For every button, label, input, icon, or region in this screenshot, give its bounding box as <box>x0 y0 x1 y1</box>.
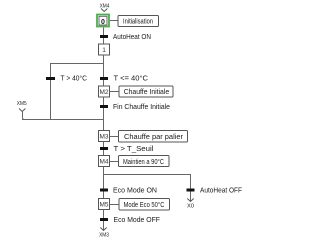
action box Chauffe par palier <box>119 131 188 143</box>
step M2 <box>99 86 110 97</box>
svg-text:0: 0 <box>101 19 105 26</box>
wire transition to step M2 <box>103 80 105 86</box>
wire transition to step 1 <box>103 38 105 44</box>
action box Chauffe Initiale <box>119 86 173 97</box>
svg-text:T > 40°C: T > 40°C <box>61 75 88 83</box>
transition Eco Mode OFF <box>100 218 108 221</box>
svg-text:Maintien a 90°C: Maintien a 90°C <box>123 158 164 166</box>
transition T > 40°C <box>46 77 55 80</box>
transition Eco Mode ON <box>100 189 108 192</box>
svg-text:Initialisation: Initialisation <box>123 19 153 26</box>
svg-text:M5: M5 <box>99 202 108 209</box>
svg-text:AutoHeat ON: AutoHeat ON <box>113 34 151 41</box>
wire left branch down <box>50 63 52 120</box>
wire M5 down <box>103 210 105 219</box>
step 1 <box>99 44 110 55</box>
svg-text:Chauffe Initiale: Chauffe Initiale <box>124 89 170 96</box>
wire right branch down <box>190 175 192 189</box>
wire M2 down <box>103 97 105 131</box>
transition T > T_Seuil <box>100 147 108 150</box>
transition AutoHeat ON <box>100 35 108 38</box>
node XM5 entry arrowhead <box>19 109 25 112</box>
action box Initialisation <box>118 16 159 27</box>
wire AutoHeat OFF to X0 <box>190 192 192 202</box>
svg-text:Mode Eco 50°C: Mode Eco 50°C <box>124 201 165 209</box>
OR divergence line <box>50 63 104 65</box>
step 0 (initial step, active, green double box) <box>97 15 109 27</box>
wire Eco Mode ON to step M5 <box>103 192 105 199</box>
wire step 1 down <box>103 55 105 77</box>
wire M3 down <box>103 142 105 156</box>
transition Fin Chauffe Initiale <box>100 105 108 108</box>
wire M4 down <box>103 167 105 189</box>
wire XM5 entry <box>23 112 25 120</box>
svg-text:M3: M3 <box>99 134 108 141</box>
step M5 <box>99 199 110 210</box>
node XM4 entry arrowhead <box>101 9 107 12</box>
wire Eco Mode OFF to XM3 <box>103 221 105 230</box>
svg-text:Fin Chauffe Initiale: Fin Chauffe Initiale <box>113 104 170 111</box>
node XM3 exit arrowhead <box>100 228 106 231</box>
wire step 0 to transition 1 <box>103 28 105 36</box>
transition AutoHeat OFF <box>187 189 195 192</box>
svg-text:T > T_Seuil: T > T_Seuil <box>114 146 154 153</box>
svg-text:Eco Mode OFF: Eco Mode OFF <box>114 217 161 224</box>
step M4 <box>99 156 110 167</box>
wire step M4 to action <box>110 161 120 163</box>
action box Mode Eco 50°C <box>119 199 170 211</box>
wire step M3 to action <box>110 136 120 138</box>
OR divergence line 2 <box>104 174 191 176</box>
wire step M2 to action <box>110 91 120 93</box>
svg-text:Eco Mode ON: Eco Mode ON <box>113 188 157 195</box>
svg-text:X0: X0 <box>187 204 194 210</box>
svg-text:Chauffe par palier: Chauffe par palier <box>124 134 184 141</box>
svg-text:XM5: XM5 <box>17 101 27 107</box>
svg-text:XM3: XM3 <box>99 233 109 239</box>
node X0 exit arrowhead <box>187 199 193 202</box>
svg-text:T <= 40°C: T <= 40°C <box>114 75 149 83</box>
action box Maintien a 90°C <box>119 156 170 167</box>
wire step 0 to action <box>110 20 118 22</box>
svg-text:M4: M4 <box>99 159 108 166</box>
svg-text:1: 1 <box>102 47 106 54</box>
wire step M5 to action <box>110 204 120 206</box>
svg-text:AutoHeat OFF: AutoHeat OFF <box>200 188 242 195</box>
OR convergence line <box>22 119 104 121</box>
step M3 <box>99 131 110 142</box>
transition T <= 40°C <box>100 77 108 80</box>
svg-text:M2: M2 <box>99 89 108 96</box>
